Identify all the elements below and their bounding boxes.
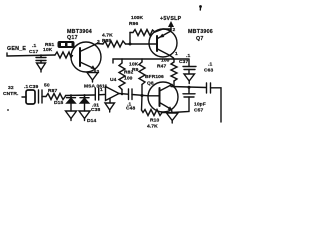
ground (D15) <box>66 111 77 119</box>
svg-text:D14: D14 <box>87 118 96 124</box>
svg-text:Q7: Q7 <box>196 36 204 42</box>
svg-text:R47: R47 <box>157 64 166 70</box>
svg-text:.1: .1 <box>24 84 28 90</box>
svg-text:D15: D15 <box>54 100 63 106</box>
svg-text:4.7K: 4.7K <box>147 124 158 130</box>
svg-text:CNTR.: CNTR. <box>3 91 19 97</box>
svg-text:4.7K: 4.7K <box>102 33 113 39</box>
svg-text:50: 50 <box>44 83 50 89</box>
black box component <box>58 41 75 48</box>
svg-text:R82: R82 <box>124 70 133 76</box>
svg-text:C57: C57 <box>194 108 203 114</box>
wire U4 output <box>119 93 128 96</box>
svg-text:GEN_E: GEN_E <box>7 46 26 52</box>
svg-text:100: 100 <box>161 58 170 64</box>
ground (C17) <box>37 63 46 70</box>
ground (Q8 emitter) <box>167 113 179 121</box>
svg-text:10K: 10K <box>129 62 139 68</box>
svg-text:10pF: 10pF <box>194 102 206 108</box>
speck bottom left <box>7 109 9 111</box>
svg-text:Q17: Q17 <box>67 35 78 41</box>
wire GEN_E input <box>7 53 55 56</box>
svg-text:.1: .1 <box>208 62 212 68</box>
wire supply rail <box>113 59 188 63</box>
svg-text:+5VSLP: +5VSLP <box>160 16 182 22</box>
ground (Q17 emitter) <box>87 73 98 81</box>
svg-text:C63: C63 <box>204 68 213 74</box>
svg-text:C38: C38 <box>91 107 100 113</box>
svg-text:10K: 10K <box>43 47 53 53</box>
wire Q17 collector to R85 <box>95 44 103 45</box>
ground (C37) <box>184 74 195 81</box>
junction <box>121 93 123 95</box>
svg-text:MBT3906: MBT3906 <box>188 29 213 35</box>
wire output rail <box>171 87 206 88</box>
svg-text:.1: .1 <box>186 53 190 59</box>
svg-text:.1: .1 <box>32 43 36 49</box>
junction <box>70 94 72 96</box>
svg-text:U4: U4 <box>110 77 117 83</box>
svg-text:BFR106: BFR106 <box>145 74 164 80</box>
connector box <box>22 96 26 98</box>
wire R85 to Q7 base <box>126 43 150 45</box>
wire C63 to edge drop <box>211 88 222 122</box>
svg-text:C17: C17 <box>29 49 38 55</box>
junction <box>129 43 132 46</box>
junction <box>83 94 85 96</box>
svg-text:C39: C39 <box>29 84 38 90</box>
ground (U4) <box>105 103 115 110</box>
svg-text:1: 1 <box>100 87 103 93</box>
wire C48 to Q8 base <box>132 95 149 96</box>
junction <box>141 94 144 97</box>
svg-text:R96: R96 <box>129 21 138 27</box>
svg-text:1: 1 <box>175 51 178 57</box>
svg-text:100K: 100K <box>131 15 143 21</box>
wire R87 to C38 <box>66 94 95 97</box>
svg-text:R10: R10 <box>150 118 159 124</box>
svg-text:C48: C48 <box>126 106 135 112</box>
ground (D14) <box>79 111 90 119</box>
svg-text:32: 32 <box>8 85 14 91</box>
junction <box>188 86 191 89</box>
svg-text:2: 2 <box>173 27 176 33</box>
svg-text:C37: C37 <box>179 59 188 65</box>
speck top right <box>199 5 202 8</box>
svg-text:R87: R87 <box>48 88 57 94</box>
svg-text:MSA 0611: MSA 0611 <box>84 84 108 90</box>
